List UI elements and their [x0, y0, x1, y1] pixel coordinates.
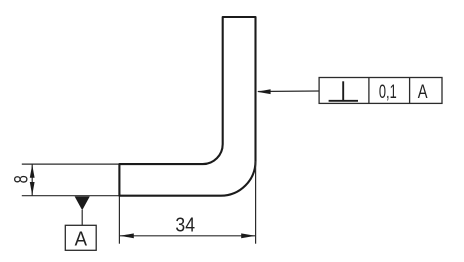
- FCF divider 1: [368, 78, 370, 104]
- arrowhead 8 bottom: [30, 182, 35, 195]
- datum triangle (filled, on bottom extension line): [75, 196, 90, 210]
- dimension line 8: [31, 164, 33, 196]
- dimension line 34: [119, 235, 255, 237]
- svg-text:0,1: 0,1: [379, 81, 397, 103]
- FCF divider 2: [409, 78, 411, 104]
- arrowhead 8 top: [30, 165, 35, 178]
- datum box: [65, 225, 96, 250]
- arrowhead 34 left: [120, 233, 134, 238]
- leader line to feature control frame: [258, 90, 319, 93]
- svg-text:A: A: [418, 81, 428, 103]
- svg-text:A: A: [75, 228, 88, 250]
- feature control frame box: [319, 78, 442, 104]
- extension line bottom (8 dim, datum feature line): [22, 195, 119, 197]
- perpendicularity symbol: [329, 81, 358, 101]
- part outline (L-shaped bent bar): [119, 17, 255, 196]
- datum stem: [81, 210, 83, 225]
- svg-text:34: 34: [175, 213, 195, 236]
- svg-text:8: 8: [11, 175, 32, 183]
- extension line right vertical (34 dim): [255, 161, 257, 244]
- extension line top (8 dim): [22, 163, 119, 165]
- arrowhead 34 right: [241, 233, 255, 238]
- leader arrowhead: [257, 89, 271, 94]
- extension line left vertical (34 dim): [118, 197, 120, 244]
